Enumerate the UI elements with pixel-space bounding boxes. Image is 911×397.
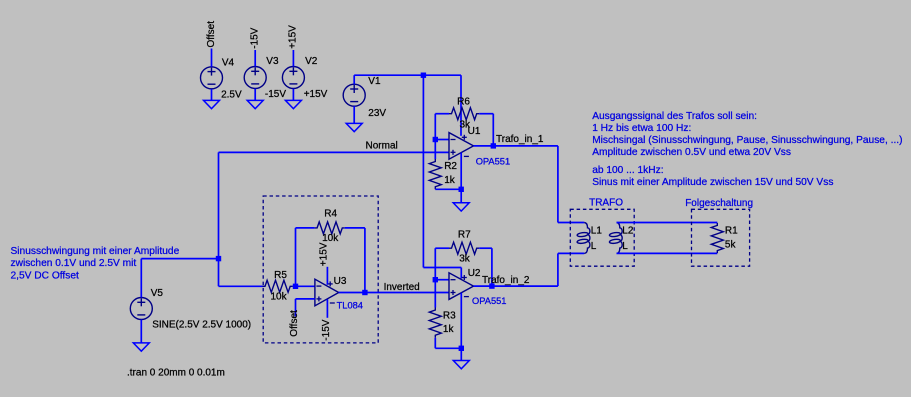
ground at U2/R3 bbox=[453, 361, 469, 369]
voltage source V5 bbox=[130, 259, 152, 343]
value L (L2) bbox=[622, 241, 628, 252]
label R3 bbox=[443, 310, 456, 321]
label V2 bbox=[305, 56, 318, 67]
dashed box TRAFO bbox=[570, 209, 634, 266]
svg-text:U1: U1 bbox=[468, 126, 481, 137]
svg-text:TRAFO: TRAFO bbox=[589, 198, 623, 209]
value SINE (V5) bbox=[152, 320, 251, 331]
svg-text:zwischen 0.1V und 2.5V mit: zwischen 0.1V und 2.5V mit bbox=[11, 258, 137, 269]
svg-text:L: L bbox=[591, 241, 597, 252]
wire input rail vertical bbox=[218, 152, 220, 286]
value 2.5V (V4) bbox=[221, 89, 242, 100]
svg-text:.tran 0 20mm 0 0.01m: .tran 0 20mm 0 0.01m bbox=[127, 367, 225, 378]
comment block (output description) bbox=[592, 111, 902, 158]
svg-text:23V: 23V bbox=[368, 108, 386, 119]
svg-text:1k: 1k bbox=[444, 175, 456, 186]
net label Normal bbox=[366, 141, 398, 152]
wire U2 V- down to ground bbox=[460, 293, 462, 361]
wire R3 bottom to junction bbox=[435, 347, 461, 349]
voltage source V2 bbox=[282, 50, 304, 100]
label R5 bbox=[274, 270, 287, 281]
net label -15V (U3) bbox=[321, 319, 332, 340]
svg-text:Offset: Offset bbox=[289, 310, 300, 337]
svg-text:Folgeschaltung: Folgeschaltung bbox=[685, 198, 753, 209]
dashed box TL084 stage bbox=[263, 196, 378, 343]
comment block (frequency description) bbox=[592, 165, 833, 188]
resistor R3 bbox=[429, 280, 441, 349]
wire Inverted bbox=[365, 292, 449, 294]
wire U3 output bbox=[339, 292, 365, 294]
svg-text:5k: 5k bbox=[725, 239, 737, 250]
value 3k (R6) bbox=[460, 120, 472, 131]
label R6 bbox=[457, 96, 470, 107]
svg-text:+15V: +15V bbox=[319, 242, 330, 266]
svg-text:V4: V4 bbox=[222, 57, 235, 68]
wire V5 to rail bbox=[141, 258, 218, 260]
svg-text:-15V: -15V bbox=[250, 27, 261, 48]
label R7 bbox=[458, 229, 471, 240]
svg-text:-15V: -15V bbox=[265, 89, 286, 100]
svg-text:ab 100 ... 1kHz:: ab 100 ... 1kHz: bbox=[592, 165, 663, 176]
wire R4 left lead down bbox=[295, 228, 297, 286]
resistor R5 bbox=[219, 280, 296, 292]
svg-text:SINE(2.5V 2.5V 1000): SINE(2.5V 2.5V 1000) bbox=[152, 320, 251, 331]
svg-text:R7: R7 bbox=[458, 229, 471, 240]
svg-text:+15V: +15V bbox=[288, 25, 299, 49]
wire U3 V+ stub bbox=[326, 267, 328, 285]
wire R6 right lead down bbox=[492, 114, 494, 146]
wire L2 top to R1 bbox=[617, 222, 718, 224]
svg-text:R4: R4 bbox=[324, 209, 337, 220]
value OPA551 (U2) bbox=[472, 296, 506, 306]
wire U3 V- stub bbox=[326, 299, 328, 318]
resistor R7 bbox=[435, 242, 492, 254]
node junction U1 output bbox=[491, 143, 496, 148]
wire R7 right lead down bbox=[491, 248, 493, 286]
node junction R3 ground bbox=[459, 346, 464, 351]
label R1 bbox=[725, 225, 738, 236]
voltage source V1 bbox=[343, 84, 365, 123]
label U2 bbox=[468, 268, 481, 279]
svg-text:2,5V DC Offset: 2,5V DC Offset bbox=[11, 270, 79, 281]
label V1 bbox=[368, 76, 381, 87]
wire R7 left lead down bbox=[434, 248, 436, 280]
label V3 bbox=[266, 56, 279, 67]
svg-text:TL084: TL084 bbox=[337, 301, 363, 311]
wire Trafo_in_2 to transformer bbox=[492, 253, 584, 286]
svg-text:V1: V1 bbox=[368, 76, 381, 87]
value 5k (R1) bbox=[725, 239, 737, 250]
net label Offset (V4) bbox=[206, 21, 217, 48]
ground at U1/R2 bbox=[453, 203, 469, 211]
label V4 bbox=[222, 57, 235, 68]
net label Trafo_in_1 bbox=[496, 134, 544, 145]
op-amp U1 bbox=[449, 133, 474, 160]
svg-text:L2: L2 bbox=[622, 225, 634, 236]
label Folgeschaltung bbox=[685, 198, 753, 209]
spice directive .tran bbox=[127, 367, 225, 378]
svg-text:U3: U3 bbox=[334, 276, 347, 287]
net label +15V (U3) bbox=[319, 242, 330, 266]
ground at V4 bbox=[204, 100, 220, 108]
svg-text:Ausgangssignal des Trafos soll: Ausgangssignal des Trafos soll sein: bbox=[592, 111, 757, 122]
wire 23V rail down to U2 V+ bbox=[423, 75, 461, 278]
node junction V5 rail bbox=[216, 256, 221, 261]
svg-text:OPA551: OPA551 bbox=[472, 296, 506, 306]
wire Trafo_in_1 to transformer bbox=[493, 146, 584, 223]
net label Trafo_in_2 bbox=[482, 275, 530, 286]
node junction U1 minus input bbox=[433, 137, 438, 142]
svg-text:U2: U2 bbox=[468, 268, 481, 279]
value 1k (R2) bbox=[444, 175, 456, 186]
op-amp U3 bbox=[315, 279, 339, 306]
wire R2 bottom to junction bbox=[435, 188, 461, 190]
svg-text:Normal: Normal bbox=[366, 141, 398, 152]
op-amp U2 bbox=[449, 273, 474, 300]
comment line (input description) bbox=[11, 246, 180, 281]
svg-text:L1: L1 bbox=[591, 225, 603, 236]
svg-text:R3: R3 bbox=[443, 310, 456, 321]
svg-text:R6: R6 bbox=[457, 96, 470, 107]
svg-text:Trafo_in_1: Trafo_in_1 bbox=[496, 134, 544, 145]
svg-text:Sinusschwingung mit einer Ampl: Sinusschwingung mit einer Amplitude bbox=[11, 246, 180, 257]
svg-text:10k: 10k bbox=[322, 233, 339, 244]
label L2 bbox=[622, 225, 634, 236]
wire junction to U1 minus bbox=[435, 139, 449, 141]
svg-text:V2: V2 bbox=[305, 56, 318, 67]
svg-text:R1: R1 bbox=[725, 225, 738, 236]
value -15V (V3) bbox=[265, 89, 286, 100]
wire R4 right lead down bbox=[364, 228, 366, 293]
svg-text:1k: 1k bbox=[443, 324, 455, 335]
svg-text:2.5V: 2.5V bbox=[221, 89, 242, 100]
resistor R2 bbox=[429, 140, 441, 190]
label R2 bbox=[444, 161, 457, 172]
node junction U3 output bbox=[362, 290, 367, 295]
label U3 bbox=[334, 276, 347, 287]
svg-text:V3: V3 bbox=[266, 56, 279, 67]
svg-text:Mischsingal (Sinusschwingung,: Mischsingal (Sinusschwingung, Pause, Sin… bbox=[592, 135, 902, 146]
svg-text:Inverted: Inverted bbox=[384, 282, 420, 293]
net label Offset (U3) bbox=[289, 310, 300, 337]
svg-text:10k: 10k bbox=[271, 291, 288, 302]
svg-text:1 Hz bis etwa 100 Hz:: 1 Hz bis etwa 100 Hz: bbox=[592, 123, 691, 134]
label V5 bbox=[151, 288, 164, 299]
svg-text:3k: 3k bbox=[459, 253, 471, 264]
node junction U2 output bbox=[489, 283, 494, 288]
wire U2 output bbox=[474, 285, 492, 287]
value 10k (R4) bbox=[322, 233, 339, 244]
resistor R6 bbox=[435, 108, 493, 120]
voltage source V4 bbox=[201, 49, 223, 101]
svg-text:-15V: -15V bbox=[321, 319, 332, 340]
wire L2 bottom to R1 bbox=[617, 252, 718, 254]
dashed box Folgeschaltung bbox=[692, 209, 750, 266]
voltage source V3 bbox=[244, 50, 266, 100]
label R4 bbox=[324, 209, 337, 220]
value +15V (V2) bbox=[304, 89, 328, 100]
net label +15V (V2) bbox=[288, 25, 299, 49]
node junction 23V rail bbox=[421, 73, 426, 78]
net label -15V (V3) bbox=[250, 27, 261, 48]
ground at V2 bbox=[285, 100, 301, 108]
svg-text:Trafo_in_2: Trafo_in_2 bbox=[482, 275, 530, 286]
value 3k (R7) bbox=[459, 253, 471, 264]
svg-text:Sinus mit einer Amplitude zwis: Sinus mit einer Amplitude zwischen 15V u… bbox=[592, 177, 833, 188]
wire junction to U2 minus bbox=[435, 279, 449, 281]
resistor R4 bbox=[296, 222, 365, 234]
ground at V3 bbox=[247, 100, 263, 108]
svg-text:L: L bbox=[622, 241, 628, 252]
inductor L2 bbox=[609, 223, 622, 254]
svg-text:+15V: +15V bbox=[304, 89, 328, 100]
node junction U2 minus input bbox=[433, 277, 438, 282]
wire Normal rail bbox=[219, 151, 450, 153]
ground at V5 bbox=[133, 343, 149, 351]
wire junction to U3 minus bbox=[296, 285, 315, 287]
svg-text:Offset: Offset bbox=[206, 21, 217, 48]
svg-text:R2: R2 bbox=[444, 161, 457, 172]
svg-text:Amplitude zwischen 0.5V und et: Amplitude zwischen 0.5V und etwa 20V Vss bbox=[592, 147, 791, 158]
value 10k (R5) bbox=[271, 291, 288, 302]
wire V1 top to rail bbox=[354, 75, 423, 84]
resistor R1 bbox=[711, 223, 723, 253]
wire rail to U1 V+ bbox=[423, 75, 461, 136]
wire U1 V- down to ground bbox=[460, 153, 462, 203]
ground at V1 bbox=[346, 123, 362, 131]
node junction R2 ground bbox=[459, 187, 464, 192]
wire U3 plus input bbox=[296, 299, 315, 317]
value OPA551 (U1) bbox=[476, 156, 510, 166]
svg-text:R5: R5 bbox=[274, 270, 287, 281]
wire U1 output bbox=[474, 145, 494, 147]
value 23V (V1) bbox=[368, 108, 386, 119]
value TL084 (U3) bbox=[337, 301, 363, 311]
label U1 bbox=[468, 126, 481, 137]
node junction U3 minus input bbox=[293, 284, 298, 289]
inductor L1 bbox=[577, 223, 590, 254]
value L (L1) bbox=[591, 241, 597, 252]
label TRAFO bbox=[589, 198, 623, 209]
svg-text:V5: V5 bbox=[151, 288, 164, 299]
net label Inverted bbox=[384, 282, 420, 293]
value 1k (R3) bbox=[443, 324, 455, 335]
svg-text:OPA551: OPA551 bbox=[476, 156, 510, 166]
label L1 bbox=[591, 225, 603, 236]
wire R6 left lead down bbox=[434, 114, 436, 140]
